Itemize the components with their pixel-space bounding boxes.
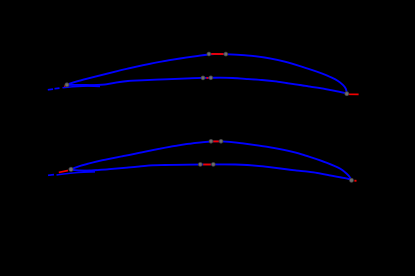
top plot: initial-orbit dashed coast lead-in [48,88,60,90]
top plot: apogee thrust dot on lower curve (red) [206,77,208,79]
top plot: node marker departure [65,83,69,87]
top plot: node marker lower-burn end [209,76,213,80]
bottom plot: arrival thrust dot (red, right) [354,180,356,182]
bottom plot: initial-orbit dashed coast lead-in [48,174,54,177]
top plot: node marker upper-burn end [224,52,228,56]
bottom plot: transfer arc 1 (upper blue coast) [71,141,351,179]
bottom plot: transfer arc 2 (lower blue coast) [71,164,352,180]
top plot: arrival thrust segment (red, right) [349,93,359,95]
bottom plot: departure thrust arc (red) [59,171,68,173]
top plot: parking-orbit companion arc [63,86,101,88]
bottom plot: node marker departure [69,167,73,171]
top plot: transfer arc 2 (lower blue coast) [67,78,347,94]
top plot: node marker arrival [345,92,349,96]
bottom plot: node marker lower-burn end [211,163,215,167]
bottom plot: parking-orbit companion arc [57,172,96,175]
bottom plot: node marker lower-burn start [198,163,202,167]
top plot: node marker upper-burn start [207,52,211,56]
top plot: departure thrust tick (red) [64,85,65,88]
top plot: node marker lower-burn start [201,76,205,80]
bottom plot: apogee thrust arc on lower curve (red) [203,164,211,166]
bottom plot: apogee thrust arc on upper curve (red) [213,140,219,142]
top plot: apogee thrust arc on upper curve (red) [211,53,223,55]
bottom plot: node marker arrival [350,178,354,182]
bottom plot: node marker upper-burn end [219,139,223,143]
top plot: transfer arc 1 (upper blue coast) [67,54,347,93]
bottom plot: node marker upper-burn start [209,139,213,143]
